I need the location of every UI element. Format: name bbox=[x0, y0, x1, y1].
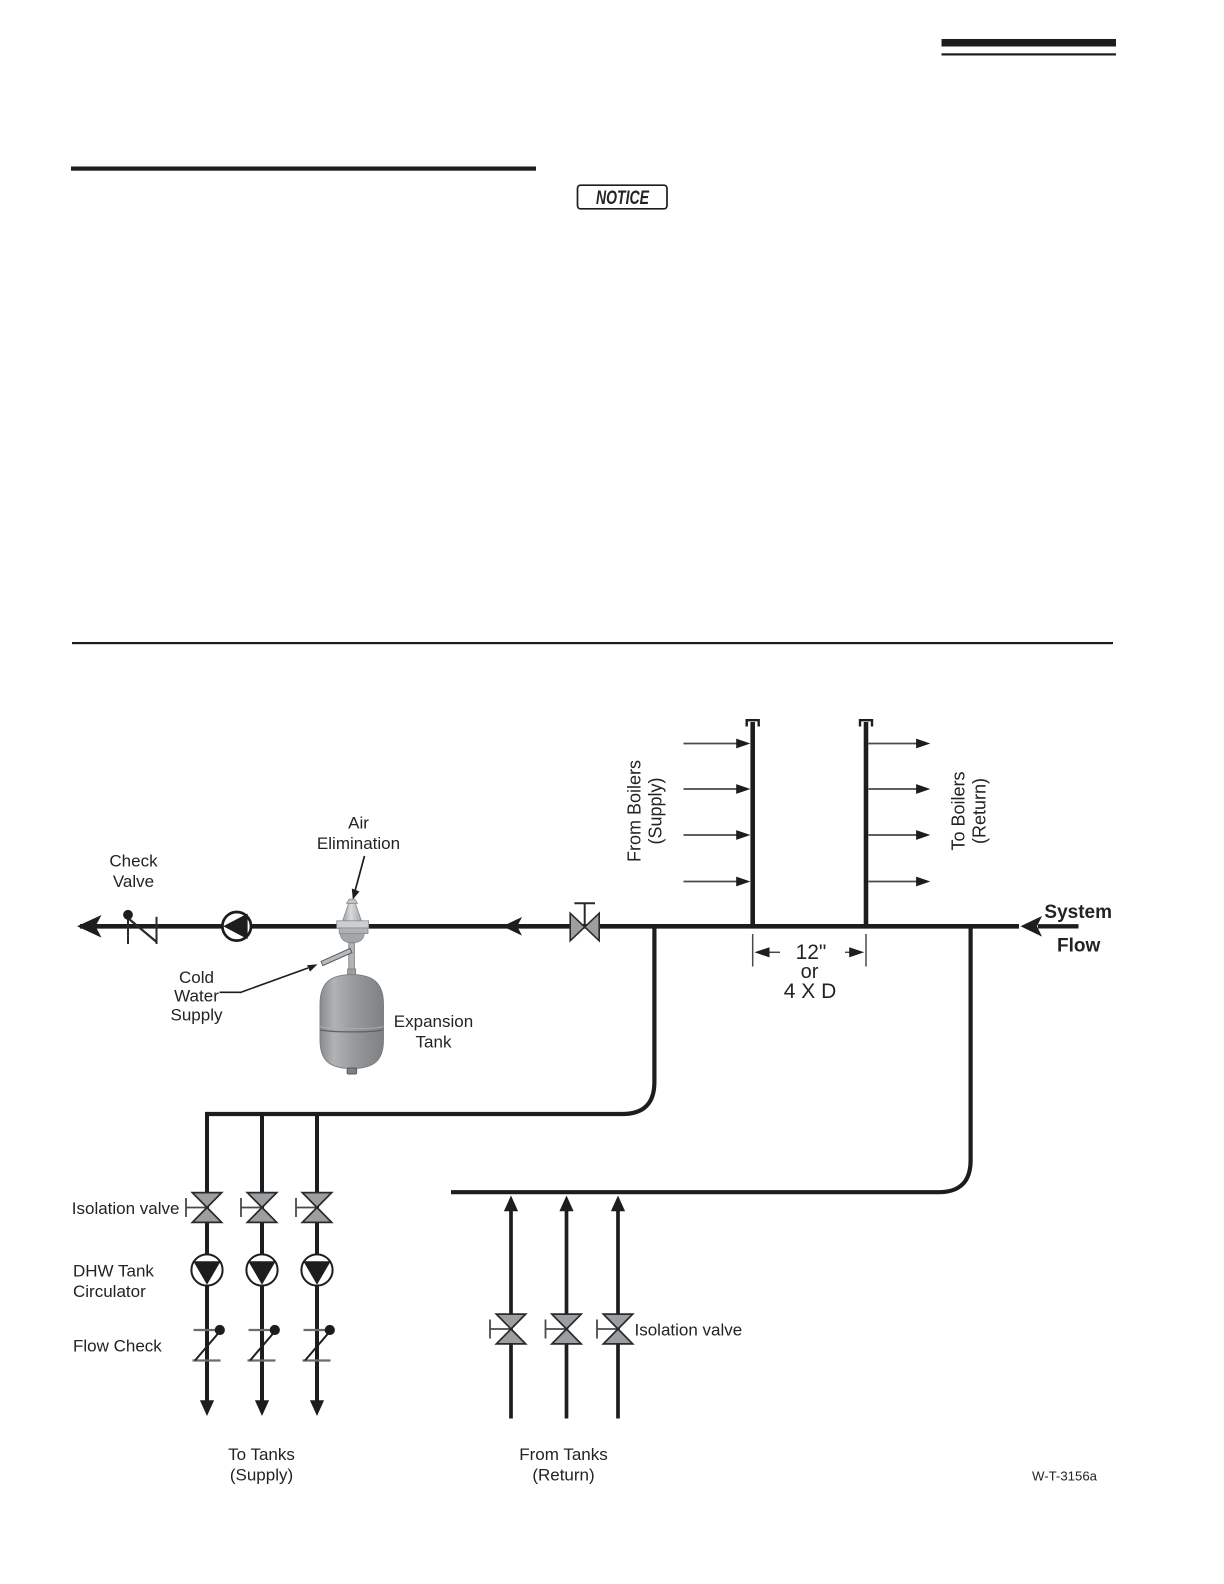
svg-text:Valve: Valve bbox=[113, 872, 154, 891]
main pipe left end arrow bbox=[77, 915, 102, 938]
dimension arrow left bbox=[755, 947, 781, 957]
dimension extension line left bbox=[752, 934, 754, 967]
svg-text:From Tanks: From Tanks bbox=[519, 1445, 608, 1464]
isolation valve right 3 bbox=[597, 1314, 633, 1344]
cold water supply pipe bbox=[321, 948, 352, 965]
leader arrow to cold water pipe bbox=[220, 964, 318, 992]
NOTICE box bbox=[578, 185, 668, 209]
isolation valve left 3 bbox=[296, 1193, 332, 1223]
svg-text:Air: Air bbox=[348, 814, 369, 833]
dimension arrow right bbox=[845, 947, 864, 957]
return branch pipe 3 bbox=[611, 1196, 625, 1419]
svg-text:Flow Check: Flow Check bbox=[73, 1336, 162, 1355]
system flow arrow bbox=[1021, 916, 1079, 937]
gate valve on main pipe bbox=[570, 903, 599, 941]
flow check 1 bbox=[193, 1325, 225, 1361]
svg-text:From Boilers: From Boilers bbox=[625, 760, 645, 862]
boiler return header pipe bbox=[860, 720, 872, 924]
isolation valve left 1 bbox=[186, 1193, 222, 1223]
supply arrow 3 bbox=[684, 830, 751, 840]
isolation valve left 2 bbox=[241, 1193, 277, 1223]
svg-text:Circulator: Circulator bbox=[73, 1282, 146, 1301]
left drop pipe with elbow to supply header bbox=[205, 928, 654, 1114]
page corner rule thin line bbox=[942, 53, 1117, 55]
return branch pipe 1 bbox=[504, 1196, 518, 1419]
label Expansion Tank bbox=[394, 1012, 473, 1052]
svg-text:Isolation valve: Isolation valve bbox=[635, 1321, 743, 1340]
label Air Elimination bbox=[317, 814, 400, 854]
svg-text:4 X D: 4 X D bbox=[784, 980, 837, 1003]
label From Tanks (Return) bbox=[519, 1445, 608, 1485]
supply arrow 1 bbox=[684, 739, 751, 749]
leader arrow to air eliminator bbox=[352, 856, 365, 900]
section heading rule bbox=[71, 167, 536, 171]
svg-text:(Return): (Return) bbox=[532, 1466, 594, 1485]
svg-text:(Return): (Return) bbox=[970, 778, 990, 844]
svg-text:To Boilers: To Boilers bbox=[949, 771, 969, 850]
supply arrow 4 bbox=[684, 877, 751, 887]
svg-text:DHW Tank: DHW Tank bbox=[73, 1261, 154, 1280]
svg-text:Cold: Cold bbox=[179, 968, 214, 987]
DHW circulator 2 bbox=[246, 1254, 277, 1285]
right drop pipe with elbow to return header bbox=[451, 928, 971, 1192]
label Check Valve bbox=[109, 851, 158, 891]
return arrow 3 bbox=[869, 830, 931, 840]
dimension text 12" or 4 X D bbox=[784, 941, 837, 1003]
svg-text:System: System bbox=[1044, 902, 1112, 923]
svg-text:Water: Water bbox=[174, 986, 219, 1005]
return arrow 2 bbox=[869, 784, 931, 794]
DHW circulator 3 bbox=[301, 1254, 332, 1285]
svg-text:Flow: Flow bbox=[1057, 935, 1100, 956]
supply branch pipe 1 bbox=[200, 1114, 214, 1416]
svg-text:Check: Check bbox=[109, 851, 158, 870]
isolation valve right 1 bbox=[490, 1314, 526, 1344]
svg-text:NOTICE: NOTICE bbox=[596, 188, 650, 209]
flow check 3 bbox=[303, 1325, 335, 1361]
flow check 2 bbox=[248, 1325, 280, 1361]
boiler supply header pipe bbox=[747, 720, 759, 924]
return branch pipe 2 bbox=[559, 1196, 573, 1419]
supply branch pipe 2 bbox=[255, 1114, 269, 1416]
label DHW Tank Circulator bbox=[73, 1261, 154, 1301]
label From Boilers (Supply) bbox=[625, 760, 666, 862]
svg-text:W-T-3156a: W-T-3156a bbox=[1032, 1468, 1098, 1483]
svg-text:Isolation valve: Isolation valve bbox=[72, 1199, 180, 1218]
svg-text:(Supply): (Supply) bbox=[646, 777, 666, 844]
label System Flow bbox=[1044, 902, 1112, 956]
expansion tank bbox=[320, 975, 384, 1074]
isolation valve right 2 bbox=[546, 1314, 582, 1344]
label Cold Water Supply bbox=[171, 968, 223, 1025]
svg-text:Expansion: Expansion bbox=[394, 1012, 473, 1031]
main system pipe bbox=[80, 924, 1019, 929]
return arrow 1 bbox=[869, 739, 931, 749]
return arrow 4 bbox=[869, 877, 931, 887]
supply arrow 2 bbox=[684, 784, 751, 794]
DHW circulator 1 bbox=[191, 1254, 222, 1285]
supply branch pipe 3 bbox=[310, 1114, 324, 1416]
air eliminator bbox=[337, 899, 369, 975]
svg-text:To Tanks: To Tanks bbox=[228, 1445, 295, 1464]
check valve bbox=[123, 910, 156, 944]
page corner rule thick bar bbox=[942, 39, 1117, 47]
svg-text:(Supply): (Supply) bbox=[230, 1466, 293, 1485]
mid pipe flow arrow bbox=[503, 917, 523, 936]
svg-text:Supply: Supply bbox=[171, 1005, 223, 1024]
label To Tanks (Supply) bbox=[228, 1445, 295, 1485]
svg-text:Tank: Tank bbox=[416, 1033, 452, 1052]
section divider rule bbox=[72, 642, 1113, 644]
dimension extension line right bbox=[865, 934, 867, 967]
svg-text:Elimination: Elimination bbox=[317, 834, 400, 853]
label To Boilers (Return) bbox=[949, 771, 990, 850]
system circulator pump bbox=[222, 912, 251, 941]
